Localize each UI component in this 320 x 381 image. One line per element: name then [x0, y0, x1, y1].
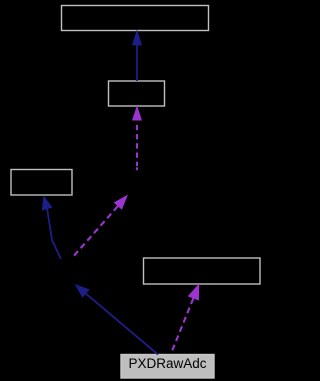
- inheritance arrow E3: PXDRawAdc up-left (solid blue): [75, 284, 158, 355]
- usage arrow E4: dashed purple into second box: [132, 105, 142, 170]
- inheritance arrow E2: to left box (solid blue): [42, 196, 61, 260]
- usage arrow E5: dashed purple diagonal with arrowhead: [72, 195, 129, 259]
- node PXDRawAdc: [121, 355, 214, 379]
- node box top (empty): [62, 6, 209, 31]
- inheritance arrow E1: second box to top box (solid blue): [132, 29, 142, 81]
- node box left (empty): [11, 170, 72, 196]
- node box right (empty): [144, 258, 261, 284]
- usage arrow E6: dashed purple from PXDRawAdc to right box: [171, 284, 199, 354]
- svg-text:PXDRawAdc: PXDRawAdc: [128, 356, 206, 371]
- node box second (empty): [109, 81, 165, 106]
